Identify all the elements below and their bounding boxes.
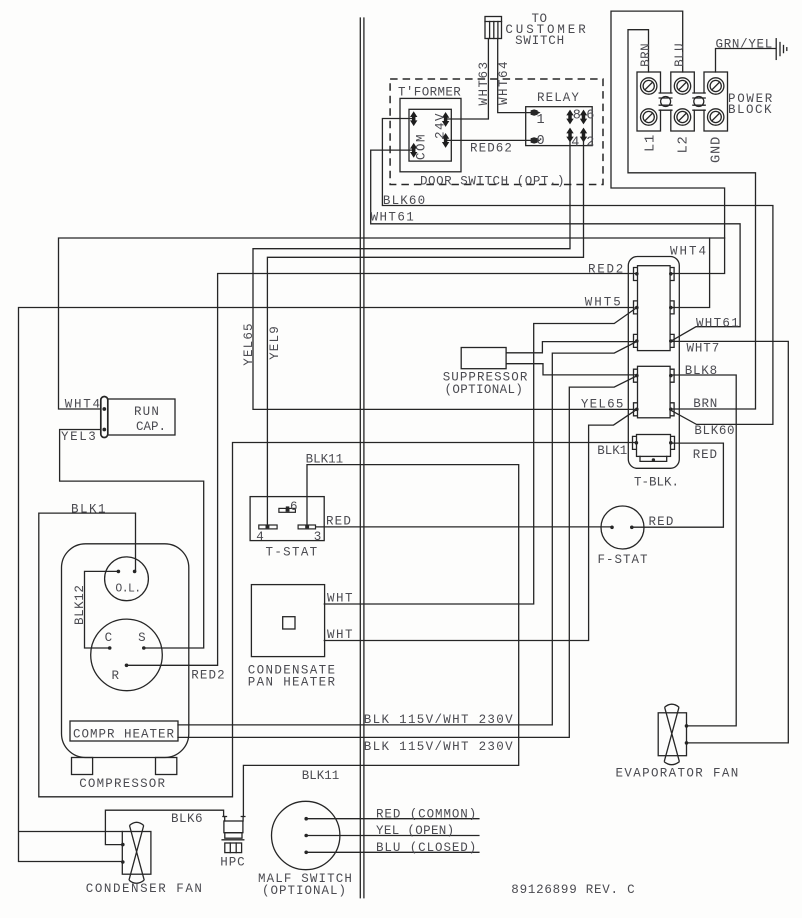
- relay box: [526, 107, 593, 146]
- svg-text:R: R: [112, 669, 120, 683]
- condenser fan: [121, 822, 151, 883]
- svg-text:RED: RED: [326, 514, 352, 528]
- svg-text:BLK60: BLK60: [383, 194, 426, 208]
- svg-text:RUN: RUN: [134, 405, 160, 419]
- F-STAT: [601, 506, 644, 549]
- svg-text:6: 6: [586, 109, 594, 124]
- svg-text:T'FORMER: T'FORMER: [398, 85, 461, 99]
- T-BLK terminal block: [628, 257, 679, 469]
- wire WHT5 branch (T-BLK tab 2 to condensate heater top): [324, 308, 637, 605]
- svg-text:PAN HEATER: PAN HEATER: [248, 676, 337, 690]
- svg-text:COMPR HEATER: COMPR HEATER: [73, 728, 175, 742]
- HPC pressure switch: [222, 817, 245, 853]
- svg-text:F-STAT: F-STAT: [598, 553, 649, 567]
- wire WHT63 (customer switch to 24V): [446, 39, 489, 120]
- wire WHT61 net (transformer to T-BLK): [371, 150, 740, 341]
- wire wall double line: [360, 18, 364, 898]
- svg-text:COMPRESSOR: COMPRESSOR: [79, 777, 166, 791]
- svg-text:RED: RED: [649, 515, 675, 529]
- svg-text:BLU (CLOSED): BLU (CLOSED): [376, 841, 477, 855]
- svg-text:0: 0: [537, 134, 545, 149]
- svg-text:WHT61: WHT61: [696, 317, 740, 331]
- svg-text:WHT63: WHT63: [477, 60, 491, 105]
- svg-text:(OPTIONAL): (OPTIONAL): [445, 383, 524, 397]
- svg-text:DOOR SWITCH (OPT.): DOOR SWITCH (OPT.): [420, 175, 565, 189]
- svg-text:3: 3: [314, 530, 322, 544]
- svg-text:WHT61: WHT61: [371, 211, 416, 225]
- svg-text:(OPTIONAL): (OPTIONAL): [262, 884, 347, 898]
- svg-text:WHT: WHT: [327, 592, 354, 606]
- wire RED COMMON: [306, 818, 479, 820]
- svg-text:T-STAT: T-STAT: [266, 546, 319, 560]
- wire WHT7 (T-BLK to evaporator fan): [671, 341, 789, 743]
- wire condenser fan upper lead: [19, 831, 122, 833]
- svg-text:BLK12: BLK12: [73, 585, 87, 625]
- wire YEL9 net (relay pin 2 to T-STAT pin 4): [267, 140, 583, 526]
- svg-text:24V: 24V: [434, 112, 448, 139]
- wire BRN (power block to T-BLK): [628, 30, 756, 409]
- svg-text:WHT4: WHT4: [65, 398, 102, 412]
- suppressor box: [461, 348, 506, 369]
- svg-text:BLK11: BLK11: [306, 453, 344, 467]
- svg-text:GND: GND: [710, 136, 725, 163]
- run cap: [101, 397, 175, 438]
- svg-text:RED (COMMON): RED (COMMON): [376, 807, 477, 821]
- svg-text:RED2: RED2: [191, 669, 226, 683]
- wire WHT (T-BLK middle tab B to condensate heater bottom): [324, 409, 637, 640]
- wire BLK6 (condenser fan to HPC): [105, 810, 223, 844]
- svg-text:BLOCK: BLOCK: [728, 103, 773, 117]
- svg-text:T-BLK.: T-BLK.: [634, 476, 679, 490]
- svg-text:WHT4: WHT4: [670, 245, 708, 259]
- wire suppressor 1 (to T-BLK tab 3): [507, 342, 637, 353]
- wire BLK 115V 1 (T-BLK tab 3 to compr heater): [178, 341, 637, 725]
- svg-text:4: 4: [571, 136, 579, 151]
- customer switch connector: [485, 17, 502, 39]
- wire YEL65 net (relay pin 4 to T-BLK tab): [253, 140, 637, 409]
- wire BLU net (power block BLU to WHT4/RUN CAP and T-BLK): [59, 11, 725, 409]
- wire RED62 (24V to relay pin 0): [446, 139, 531, 141]
- svg-text:L1: L1: [643, 134, 658, 152]
- svg-text:YEL65: YEL65: [242, 322, 256, 366]
- svg-text:BLU: BLU: [673, 43, 687, 67]
- wire WHT64 (customer switch to relay pin 1): [498, 39, 531, 113]
- svg-text:RELAY: RELAY: [537, 91, 580, 105]
- svg-text:RED62: RED62: [470, 142, 513, 156]
- wire GRN/YEL (GND strip to earth): [716, 49, 776, 73]
- svg-text:BLK 115V/WHT 230V: BLK 115V/WHT 230V: [364, 740, 514, 754]
- svg-text:8: 8: [573, 109, 581, 124]
- svg-text:YEL3: YEL3: [61, 430, 97, 444]
- malf switch circle: [272, 801, 340, 869]
- svg-text:BLK1: BLK1: [71, 503, 107, 517]
- svg-text:GRN/YEL: GRN/YEL: [716, 38, 773, 52]
- svg-text:BRN: BRN: [693, 397, 718, 411]
- power block: [637, 72, 728, 131]
- svg-text:O.L.: O.L.: [115, 583, 140, 596]
- T-STAT: [250, 497, 324, 541]
- wire BLU CLOSED: [306, 851, 479, 853]
- wire BLK60 net (transformer COM to T-BLK): [382, 119, 773, 425]
- wire RED (T-STAT pin 3 to F-STAT): [308, 526, 612, 528]
- wire RED2 net (T-BLK to compressor R): [127, 274, 638, 666]
- svg-text:CONDENSER FAN: CONDENSER FAN: [86, 882, 204, 896]
- svg-text:C: C: [105, 631, 113, 645]
- svg-text:YEL65: YEL65: [581, 397, 625, 411]
- svg-text:S: S: [138, 631, 146, 645]
- svg-text:BLK6: BLK6: [171, 812, 203, 826]
- wire BLK1 net (T-BLK to O.L.): [39, 443, 637, 797]
- svg-text:HPC: HPC: [220, 855, 245, 869]
- wire BLK12 (O.L. to compressor C): [85, 571, 119, 648]
- svg-text:RED2: RED2: [588, 263, 625, 277]
- svg-text:YEL9: YEL9: [268, 325, 282, 360]
- wire BLK11 net (T-STAT pin 3 to HPC): [243, 465, 518, 817]
- transformer T'FORMER: [400, 98, 461, 171]
- wire RED (F-STAT to T-BLK bottom tab): [632, 443, 724, 527]
- wire T-BLK tab R2 up to WHT4 line: [671, 238, 710, 308]
- svg-text:4: 4: [256, 530, 264, 544]
- ground symbol: [776, 39, 787, 60]
- svg-text:BLK 115V/WHT 230V: BLK 115V/WHT 230V: [364, 713, 514, 727]
- svg-text:WHT7: WHT7: [687, 342, 721, 356]
- door switch dashed box: [390, 79, 603, 185]
- evaporator fan: [658, 704, 688, 765]
- wire WHT5 long (condenser fan to T-BLK tab 2): [19, 308, 635, 862]
- svg-text:WHT64: WHT64: [497, 60, 511, 105]
- svg-text:EVAPORATOR FAN: EVAPORATOR FAN: [616, 767, 740, 781]
- relay pin numbers: [537, 109, 595, 151]
- svg-text:BLK1: BLK1: [597, 444, 627, 458]
- svg-text:BRN: BRN: [639, 43, 653, 67]
- svg-text:BLK60: BLK60: [694, 424, 735, 438]
- compressor: [62, 544, 189, 775]
- wire YEL OPEN: [306, 835, 479, 837]
- svg-text:YEL (OPEN): YEL (OPEN): [376, 824, 455, 838]
- svg-text:6: 6: [290, 500, 298, 514]
- svg-text:WHT: WHT: [327, 628, 354, 642]
- svg-text:CAP.: CAP.: [136, 420, 166, 434]
- svg-text:COM: COM: [415, 133, 429, 160]
- svg-text:L2: L2: [677, 136, 692, 154]
- svg-text:2: 2: [586, 136, 594, 151]
- wire BLK8 (T-BLK to evaporator fan): [671, 375, 736, 726]
- wire suppressor 2 (to T-BLK middle tab A): [507, 364, 637, 375]
- condensate pan heater: [251, 585, 324, 657]
- wire YEL3 (run cap to compressor S): [60, 430, 204, 649]
- svg-text:BLK8: BLK8: [685, 364, 718, 378]
- svg-text:1: 1: [537, 113, 545, 128]
- wire BLK 115V 2 (T-BLK middle tab A to compr heater): [178, 376, 637, 738]
- svg-text:SWITCH: SWITCH: [515, 34, 565, 48]
- svg-text:BLK11: BLK11: [302, 769, 340, 783]
- svg-text:RED: RED: [693, 448, 718, 462]
- svg-text:89126899 REV. C: 89126899 REV. C: [511, 883, 635, 897]
- svg-text:WHT5: WHT5: [585, 296, 623, 310]
